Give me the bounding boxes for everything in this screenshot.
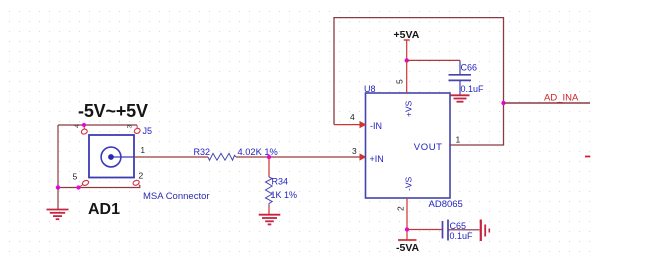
junction top pin4	[82, 123, 86, 127]
svg-text:2: 2	[396, 206, 406, 211]
svg-text:2: 2	[139, 171, 144, 181]
wire feedback loop	[334, 18, 504, 145]
junction bottom ground corner	[56, 185, 60, 189]
svg-text:1: 1	[141, 146, 146, 155]
capacitor C66	[449, 60, 472, 94]
svg-text:5: 5	[73, 172, 78, 182]
svg-text:-IN: -IN	[370, 121, 382, 131]
wire net AD_INA	[504, 102, 591, 104]
U8 pin 1 number	[456, 135, 461, 145]
svg-text:AD8065: AD8065	[429, 199, 463, 210]
svg-text:3: 3	[127, 125, 134, 129]
svg-text:R34: R34	[272, 177, 289, 187]
stray red dash	[585, 156, 590, 158]
ground (R34)	[259, 215, 281, 225]
U8 pin 2 number	[396, 206, 406, 211]
wire U8 pin4 input	[334, 124, 360, 126]
svg-text:3: 3	[352, 146, 357, 156]
ground (C66)	[451, 95, 470, 101]
label -5V~+5V	[78, 101, 148, 121]
svg-text:1: 1	[456, 135, 461, 145]
wire J5 top net	[58, 124, 137, 126]
J5 pin 5	[73, 172, 90, 188]
wire R34 bottom lead	[268, 205, 270, 214]
svg-text:1K 1%: 1K 1%	[271, 190, 298, 200]
power -5VA	[396, 240, 420, 254]
C65 value label 0.1uF	[450, 231, 474, 241]
J5 pin 3	[127, 125, 141, 135]
svg-text:5: 5	[395, 79, 405, 84]
svg-text:AD1: AD1	[88, 201, 120, 218]
J5 pin 1 number	[141, 146, 146, 155]
wire -5VA node to C65	[407, 229, 442, 231]
ground (connector)	[47, 188, 69, 220]
U8 -IN pin name	[370, 121, 382, 131]
J5 refdes label	[143, 126, 153, 136]
wire U8 pin2	[406, 198, 408, 240]
power +5VA	[394, 29, 420, 60]
svg-text:-5VA: -5VA	[396, 242, 420, 254]
junction bottom pin5	[76, 185, 80, 189]
svg-text:0.1uF: 0.1uF	[461, 84, 485, 94]
svg-text:+5VA: +5VA	[394, 29, 420, 41]
U8 -VS pin name	[404, 177, 414, 192]
wire J5 bottom net	[58, 185, 140, 188]
U8 refdes label	[364, 84, 376, 94]
wire R32 to U8 pin3	[236, 156, 360, 158]
R34 value label 1K 1%	[271, 190, 298, 200]
junction +5VA node	[405, 58, 409, 62]
J5 pin 2	[132, 171, 143, 187]
wire +5VA to C66	[407, 59, 460, 61]
svg-text:4: 4	[74, 124, 81, 128]
junction -5VA node	[405, 227, 409, 231]
wire U8 pin5	[406, 60, 408, 93]
svg-text:4: 4	[350, 112, 355, 122]
U8 pin 3 number	[352, 146, 357, 156]
wire R34 top lead	[268, 157, 270, 177]
op-amp U8 body	[366, 93, 451, 198]
ground (C65, sideways)	[481, 220, 490, 242]
capacitor C65	[443, 220, 480, 241]
R34 refdes label	[272, 177, 289, 187]
wire J5 left vertical	[57, 125, 59, 188]
C65 refdes label	[450, 221, 467, 231]
svg-text:-5V~+5V: -5V~+5V	[78, 101, 148, 121]
net label AD_INA	[544, 93, 579, 104]
connector J5 body	[89, 135, 134, 178]
svg-text:+VS: +VS	[404, 100, 414, 117]
junction AD_INA tap	[501, 101, 505, 105]
U8 part number AD8065	[429, 199, 463, 210]
svg-text:U8: U8	[364, 84, 376, 94]
svg-text:R32: R32	[194, 147, 211, 157]
resistor R34	[266, 177, 273, 205]
C66 refdes label	[461, 63, 478, 73]
R32 refdes label	[194, 147, 211, 157]
U8 VOUT pin name	[414, 142, 443, 153]
svg-text:-VS: -VS	[404, 177, 414, 192]
svg-text:C66: C66	[461, 63, 478, 73]
J5 pin 4	[74, 124, 88, 135]
label AD1	[88, 201, 120, 218]
U8 +IN pin name	[370, 154, 384, 164]
svg-text:MSA Connector: MSA Connector	[143, 191, 210, 202]
svg-text:0.1uF: 0.1uF	[450, 231, 474, 241]
U8 pin 3 arrowhead	[360, 153, 367, 160]
svg-text:AD_INA: AD_INA	[544, 93, 579, 104]
svg-text:+IN: +IN	[370, 154, 384, 164]
junction R34 tap	[267, 155, 271, 159]
svg-text:J5: J5	[143, 126, 153, 136]
U8 +VS pin name	[404, 100, 414, 117]
resistor R32	[208, 153, 236, 160]
U8 pin 4 number	[350, 112, 355, 122]
R32 value label 4.02K 1%	[238, 147, 278, 157]
label MSA Connector	[143, 191, 210, 202]
svg-text:4.02K 1%: 4.02K 1%	[238, 147, 278, 157]
U8 pin 4 arrowhead	[360, 121, 367, 128]
wire J5 pin1 to R32	[134, 156, 208, 158]
svg-text:C65: C65	[450, 221, 467, 231]
svg-text:VOUT: VOUT	[414, 142, 443, 153]
C66 value label 0.1uF	[461, 84, 485, 94]
U8 pin 5 number	[395, 79, 405, 84]
